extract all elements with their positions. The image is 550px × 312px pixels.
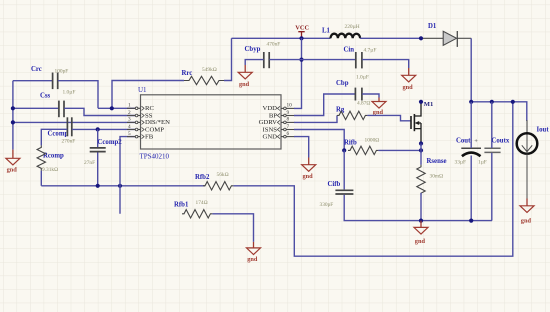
- node junction Cout / bottom rail: [469, 219, 473, 223]
- wire COMP pin line: [72, 128, 135, 130]
- wire GDRV pin up to Rg: [294, 115, 337, 122]
- transistor M1: [411, 101, 433, 144]
- wire Cout top lead: [470, 102, 472, 148]
- node junction Rifb / source line: [419, 148, 423, 152]
- pin 9 BP: [269, 110, 295, 120]
- svg-text:3: 3: [128, 117, 131, 123]
- svg-text:Ccomp: Ccomp: [48, 131, 69, 138]
- wire Rcomp bottom to comp rail: [40, 171, 42, 186]
- wire Rsense bottom to rail: [420, 193, 422, 221]
- capacitor Cout: [455, 138, 482, 166]
- resistor Rfb2: [195, 172, 233, 190]
- svg-text:27nF: 27nF: [84, 160, 95, 166]
- svg-text:Rfb2: Rfb2: [195, 174, 210, 181]
- wire Rrc left lead down to RC pin line: [112, 81, 184, 109]
- wire Coutx top lead: [491, 102, 493, 148]
- node junction Ccomp2 / rail: [96, 184, 100, 188]
- svg-text:1000Ω: 1000Ω: [365, 137, 380, 143]
- svg-text:7: 7: [287, 124, 290, 130]
- wire Cbyp left lead to gnd: [245, 60, 263, 65]
- node junction M1 drain: [419, 100, 423, 104]
- pin 1 RC: [127, 103, 154, 113]
- capacitor Cin: [344, 47, 377, 69]
- capacitor Crc: [31, 66, 68, 89]
- resistor Rrc: [182, 67, 225, 85]
- svg-text:Crc: Crc: [31, 66, 42, 73]
- svg-text:gnd: gnd: [303, 173, 314, 180]
- svg-text:M1: M1: [424, 101, 434, 108]
- svg-text:Ccomp2: Ccomp2: [98, 139, 123, 146]
- wire left rail vertical: [12, 81, 14, 150]
- pin 2 SS: [127, 110, 153, 120]
- ground below GND pin: [302, 158, 316, 181]
- wire Ccomp2 bottom lead: [97, 152, 99, 185]
- svg-text:FB: FB: [145, 133, 154, 140]
- svg-text:gnd: gnd: [521, 218, 532, 225]
- svg-text:4.87Ω: 4.87Ω: [357, 100, 370, 106]
- svg-text:COMP: COMP: [145, 126, 164, 133]
- svg-text:GDRV: GDRV: [259, 119, 278, 126]
- node junction output / Cout: [469, 100, 473, 104]
- svg-text:1µF: 1µF: [478, 160, 487, 166]
- node junction Rsense bottom rail: [419, 219, 423, 223]
- svg-text:1: 1: [128, 103, 131, 109]
- svg-text:9: 9: [287, 110, 290, 116]
- ground: [6, 150, 20, 174]
- pin 8 GDRV: [259, 117, 295, 127]
- wire Rrc right lead up to VCC rail: [224, 38, 232, 80]
- node junction VCC: [299, 36, 303, 40]
- node junction output / Coutx: [490, 100, 494, 104]
- wire output rail: [471, 102, 527, 121]
- svg-text:330pF: 330pF: [320, 202, 334, 208]
- svg-text:TPS40210: TPS40210: [140, 152, 170, 160]
- node junction RC/Rrc: [110, 106, 114, 110]
- wire Cifb top lead: [343, 150, 345, 189]
- capacitor Cifb: [320, 181, 354, 208]
- svg-text:220µH: 220µH: [345, 24, 360, 30]
- svg-text:4: 4: [128, 124, 131, 130]
- pin 5 FB: [127, 131, 154, 141]
- svg-text:56kΩ: 56kΩ: [217, 172, 229, 178]
- wire Iout bottom to gnd: [526, 154, 528, 199]
- wire Css right jog to SS pin: [64, 108, 135, 115]
- wire Coutx bottom lead: [491, 153, 493, 221]
- svg-text:100pF: 100pF: [55, 68, 69, 74]
- resistor Rsense: [417, 158, 447, 195]
- svg-text:Rifb: Rifb: [344, 140, 357, 147]
- node junction ISNS/Rifb/Cifb: [342, 148, 346, 152]
- diode D1: [428, 23, 457, 47]
- node junction left rail / SS: [11, 106, 15, 110]
- svg-text:Rrc: Rrc: [182, 70, 193, 77]
- wire L1 right to D1 anode: [360, 37, 421, 39]
- svg-text:Cifb: Cifb: [328, 181, 341, 188]
- inductor L1: [322, 24, 360, 39]
- svg-text:549kΩ: 549kΩ: [202, 67, 217, 73]
- wire GND pin to gnd: [294, 137, 309, 158]
- svg-text:Rfb1: Rfb1: [174, 202, 189, 209]
- capacitor Ccomp: [48, 117, 76, 144]
- wire RC pin line: [98, 107, 135, 109]
- wire Ccomp2 top lead: [97, 129, 99, 147]
- ground below Iout: [520, 199, 534, 225]
- ground below Cin: [402, 68, 416, 91]
- capacitor Cbp: [336, 74, 369, 100]
- pin 7 ISNS: [263, 124, 295, 134]
- svg-text:Cout: Cout: [456, 138, 471, 145]
- wire VCC down to Cbyp/Cin line and VDD: [294, 38, 302, 108]
- wire Rfb1 right lead to gnd: [212, 214, 253, 242]
- node junction Cbyp/Cin line: [299, 58, 303, 62]
- wire Ccomp left lead down to Rcomp: [41, 129, 67, 145]
- svg-text:4.7µF: 4.7µF: [364, 47, 377, 53]
- resistor Rifb: [344, 137, 379, 154]
- svg-text:L1: L1: [322, 28, 331, 35]
- wire DIS/*EN line: [13, 121, 135, 123]
- capacitor Cbyp: [245, 41, 281, 68]
- svg-text:VCC: VCC: [295, 24, 309, 31]
- svg-text:1.0µF: 1.0µF: [63, 90, 76, 96]
- wire SS net left segment: [13, 107, 59, 109]
- svg-text:U1: U1: [138, 86, 147, 94]
- svg-text:6: 6: [287, 131, 290, 137]
- svg-text:+: +: [474, 138, 478, 145]
- current source Iout: [517, 126, 550, 154]
- wire FB pin line and vertical: [120, 137, 135, 214]
- wire Crc left lead: [13, 80, 53, 82]
- ground below Cbyp: [238, 65, 252, 88]
- svg-text:Cbp: Cbp: [336, 80, 349, 87]
- svg-text:Rsense: Rsense: [427, 158, 447, 165]
- wire Cifb bottom lead to bottom rail: [344, 195, 492, 221]
- svg-text:10: 10: [287, 103, 293, 109]
- node junction M1 source: [419, 141, 423, 145]
- component U1 TPS40210: [138, 86, 281, 160]
- svg-text:gnd: gnd: [247, 256, 258, 263]
- wire Cbyp right to Cin left: [269, 59, 355, 61]
- svg-text:174Ω: 174Ω: [196, 200, 208, 206]
- resistor Rcomp: [37, 145, 64, 173]
- svg-text:Css: Css: [40, 93, 51, 100]
- node junction D1 anode / M1 drain: [419, 36, 423, 40]
- svg-text:gnd: gnd: [415, 238, 426, 245]
- wire VCC rail: [232, 37, 331, 39]
- wire Cbp right lead to gnd: [362, 94, 379, 98]
- svg-text:Coutx: Coutx: [492, 138, 510, 145]
- pin 3 DIS/*EN: [127, 117, 170, 127]
- wire Cout bottom lead: [470, 156, 472, 221]
- svg-text:2: 2: [128, 110, 131, 116]
- wire Crc right to RC net: [58, 81, 98, 109]
- wire D1 cathode down to output rail: [457, 37, 471, 39]
- wire comp bottom rail: [41, 185, 205, 187]
- svg-text:1.0µF: 1.0µF: [356, 74, 369, 80]
- svg-text:gnd: gnd: [7, 167, 18, 174]
- capacitor Css: [40, 90, 75, 118]
- wire Cin right lead to gnd: [362, 60, 409, 68]
- svg-text:RC: RC: [145, 105, 154, 112]
- resistor Rg: [336, 100, 370, 119]
- svg-text:Iout: Iout: [537, 126, 550, 133]
- svg-text:470nF: 470nF: [267, 41, 281, 47]
- capacitor Ccomp2: [84, 139, 122, 166]
- pin 4 COMP: [127, 124, 164, 134]
- wire BP pin up to Cbp: [294, 94, 355, 116]
- ground below Cbp: [372, 98, 386, 116]
- svg-text:gnd: gnd: [239, 81, 250, 88]
- svg-text:GND: GND: [263, 133, 278, 140]
- wire Rifb right to M1 source node: [378, 149, 421, 151]
- svg-text:9.31kΩ: 9.31kΩ: [42, 167, 58, 173]
- pin 10 VDD: [263, 103, 295, 113]
- svg-text:8: 8: [287, 117, 290, 123]
- svg-text:DIS/*EN: DIS/*EN: [145, 119, 170, 126]
- pin 6 GND: [263, 131, 295, 141]
- svg-text:270nF: 270nF: [62, 138, 76, 144]
- svg-text:5: 5: [128, 131, 131, 137]
- node junction FB vertical / rail: [118, 184, 122, 188]
- svg-text:gnd: gnd: [403, 84, 414, 91]
- svg-text:Cbyp: Cbyp: [245, 46, 261, 53]
- resistor Rfb1: [174, 200, 212, 218]
- capacitor Coutx: [478, 138, 510, 166]
- svg-text:Cin: Cin: [344, 47, 355, 54]
- wire M1 source to Rsense: [420, 144, 422, 165]
- svg-text:30mΩ: 30mΩ: [430, 173, 444, 179]
- wire ISNS pin down to Rifb: [294, 130, 344, 151]
- svg-text:33µF: 33µF: [455, 160, 467, 166]
- wire Rg right to M1 gate: [367, 115, 410, 120]
- svg-text:ISNS: ISNS: [263, 126, 278, 133]
- node junction left rail / DIS: [11, 120, 15, 124]
- power VCC: [295, 24, 309, 38]
- svg-text:D1: D1: [428, 23, 437, 30]
- svg-text:VDD: VDD: [263, 105, 278, 112]
- node junction COMP / Ccomp2: [96, 127, 100, 131]
- wire Rfb2 right feedback loop to output: [233, 102, 512, 256]
- node junction output / feedback: [511, 100, 515, 104]
- ground below Rsense: [414, 221, 428, 246]
- ground below Rfb1: [247, 242, 261, 263]
